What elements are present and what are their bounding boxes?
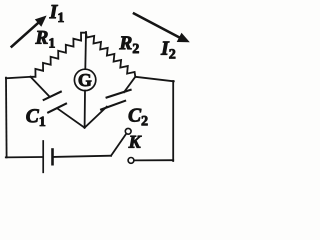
wire top-left horizontal (corner to left node): [6, 77, 31, 79]
wire left node to capacitor C1: [31, 77, 49, 96]
label K: [128, 136, 141, 148]
resistor R1: [31, 33, 87, 77]
current arrow I1 shaft: [12, 22, 39, 46]
battery short plate (-): [51, 150, 54, 165]
wire right edge vertical: [172, 81, 174, 161]
galvanometer G circle: [74, 69, 95, 90]
current arrow I2 shaft: [134, 14, 180, 38]
label I2: [161, 42, 175, 59]
switch contact lower circle: [128, 158, 134, 164]
capacitor C2 plate 2: [101, 101, 125, 110]
capacitor C2 plate 1: [107, 90, 131, 98]
switch blade K: [111, 134, 126, 156]
label C1: [26, 109, 45, 126]
label I1: [49, 5, 63, 22]
label R2: [119, 36, 138, 53]
wire right node to capacitor C2: [124, 77, 135, 92]
arrowhead I1: [35, 16, 47, 27]
switch contact upper circle: [125, 128, 131, 134]
wire capacitor C1 to bottom vertex: [57, 108, 84, 127]
wire bottom-left (corner to battery): [6, 156, 43, 158]
wire capacitor C2 to bottom vertex: [85, 107, 107, 128]
wire apex to galvanometer: [84, 32, 87, 69]
battery long plate (+): [42, 141, 44, 172]
label R1: [35, 31, 54, 48]
wire switch to bottom-right corner: [134, 159, 173, 161]
wire galvanometer to bottom vertex: [84, 91, 86, 128]
capacitor C1 plate 1: [44, 92, 61, 100]
label G (galvanometer): [79, 74, 92, 86]
label C2: [129, 109, 148, 126]
arrowhead I2: [177, 33, 190, 43]
resistor R2: [86, 33, 135, 77]
wire right corner to right node: [135, 77, 174, 82]
capacitor C1 plate 2: [48, 104, 66, 113]
wire battery to switch: [54, 156, 111, 157]
wire left edge vertical: [5, 78, 8, 158]
